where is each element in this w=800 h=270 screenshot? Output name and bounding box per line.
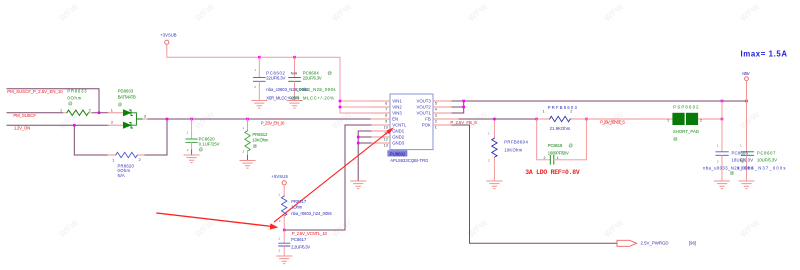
svg-text:3A LDO REF=0.8V: 3A LDO REF=0.8V	[525, 169, 580, 176]
svg-text:21.9KOhm: 21.9KOhm	[550, 126, 571, 131]
svg-text:2: 2	[700, 118, 702, 122]
svg-text:VOUT3: VOUT3	[416, 99, 431, 104]
svg-text:4: 4	[435, 107, 437, 111]
svg-text:1: 1	[278, 192, 280, 196]
resistor PR8612 labels	[242, 126, 269, 153]
svg-text:2: 2	[187, 148, 189, 152]
resistor PR8617 labels	[278, 192, 331, 223]
svg-text:2: 2	[243, 149, 245, 153]
svg-text:1: 1	[187, 131, 189, 135]
power +2.5V	[742, 71, 750, 101]
svg-text:1.2V_ON: 1.2V_ON	[14, 126, 30, 131]
ground PC8620	[184, 155, 199, 163]
wire 1.2V_ON	[7, 124, 108, 126]
svg-text:3: 3	[435, 113, 437, 117]
PU8602 pin numbers	[384, 101, 437, 147]
resistor PR8633 labels	[60, 88, 91, 112]
svg-text:PU8602: PU8602	[390, 151, 406, 156]
svg-text:10KOhm: 10KOhm	[504, 148, 522, 153]
resistor PRFB8603 labels	[543, 105, 578, 131]
svg-text:GND3: GND3	[392, 141, 405, 146]
capacitor PC8617 labels	[278, 237, 310, 253]
svg-text:VIN1: VIN1	[392, 99, 402, 104]
svg-text:@: @	[328, 70, 332, 75]
svg-text:@: @	[673, 137, 677, 142]
svg-text:1: 1	[112, 158, 114, 162]
svg-text:10: 10	[384, 125, 388, 129]
wire PR8633 to diode	[92, 112, 108, 114]
svg-text:PC8617: PC8617	[291, 237, 307, 242]
capacitor PC8606 PC8607 labels	[703, 144, 786, 176]
svg-text:+5VSUS: +5VSUS	[271, 174, 288, 179]
wire VCNTL	[284, 125, 371, 230]
watermark	[57, 1, 762, 239]
svg-text:2: 2	[139, 158, 141, 162]
capacitor PC8617	[279, 230, 290, 256]
capacitor PC8607	[741, 101, 753, 181]
svg-text:10UF/6.3V: 10UF/6.3V	[757, 158, 777, 163]
svg-text:2: 2	[544, 156, 546, 160]
resistor PRFB8603	[537, 116, 587, 121]
wire VIN3	[340, 112, 384, 114]
resistor PR8620 labels	[112, 158, 141, 178]
svg-text:1: 1	[60, 109, 62, 113]
PU8602 refdes highlight	[388, 151, 407, 157]
svg-text:PR8617: PR8617	[291, 199, 307, 204]
wire sense net	[586, 118, 669, 120]
junction dots VOUT tie	[462, 100, 465, 109]
svg-text:8: 8	[385, 113, 387, 117]
svg-text:PC8606: PC8606	[732, 151, 749, 156]
ground PC8617	[277, 256, 292, 264]
capacitor PC8602 labels	[254, 68, 285, 89]
svg-text:2: 2	[717, 160, 719, 164]
svg-text:@: @	[118, 102, 122, 107]
svg-text:2: 2	[111, 121, 113, 125]
svg-text:VIN3: VIN3	[392, 111, 402, 116]
svg-text:@: @	[199, 147, 203, 152]
annotation red arrow to VCNTL junction	[157, 213, 278, 230]
wire PM_SUSC#	[7, 112, 63, 114]
svg-text:PR8633: PR8633	[67, 88, 87, 93]
wire GND bus	[358, 131, 371, 181]
junction dots 3VSUB rail	[258, 56, 341, 108]
svg-text:EN: EN	[392, 117, 398, 122]
capacitor PC8604 labels	[266, 70, 335, 100]
wire port PM_SUSC#_P_2.5V_EN_10	[7, 89, 99, 113]
svg-text:PM_SUSC#: PM_SUSC#	[13, 113, 36, 118]
svg-text:2.5V_PWRGD: 2.5V_PWRGD	[641, 241, 669, 246]
svg-text:+3VSUB: +3VSUB	[160, 32, 177, 37]
wire VOUT rail	[452, 100, 747, 102]
ground PC8606	[715, 181, 730, 189]
svg-text:PD8603: PD8603	[118, 88, 134, 93]
resistor PR8620	[108, 152, 144, 157]
svg-text:SHORT_PAD: SHORT_PAD	[673, 129, 699, 134]
svg-text:PM_SUSC#_P_2.5V_EN_10: PM_SUSC#_P_2.5V_EN_10	[7, 89, 63, 94]
svg-text:12: 12	[384, 137, 388, 141]
capacitor PC8604	[289, 57, 301, 100]
svg-text:1: 1	[488, 132, 490, 136]
svg-text:0Ohm: 0Ohm	[67, 95, 81, 100]
svg-text:GND2: GND2	[392, 135, 405, 140]
svg-text:P_2.5V_VCNTL_10: P_2.5V_VCNTL_10	[292, 231, 328, 236]
resistor PRFB8604	[492, 119, 497, 181]
wire FB net	[459, 118, 537, 120]
svg-text:@: @	[68, 101, 72, 106]
svg-text:GND1: GND1	[392, 129, 405, 134]
svg-text:P_2.5V_EN_10: P_2.5V_EN_10	[261, 121, 285, 126]
capacitor PC8620 labels	[187, 131, 220, 153]
resistor R PR8633	[63, 110, 92, 115]
svg-text:VOUT2: VOUT2	[416, 105, 431, 110]
svg-text:1: 1	[667, 118, 669, 122]
junction dots output	[721, 100, 748, 121]
resistor PR8617	[282, 185, 287, 230]
svg-text:[96]: [96]	[689, 241, 696, 246]
capacitor PC8602	[253, 57, 265, 100]
svg-text:VIN2: VIN2	[392, 105, 402, 110]
svg-text:P_2.5V_SENSE_S: P_2.5V_SENSE_S	[600, 119, 625, 124]
ground IC GND	[351, 181, 366, 189]
PU8602 pin names	[392, 99, 431, 146]
svg-text:2.2UF/6.3V: 2.2UF/6.3V	[291, 244, 310, 249]
svg-text:P_2.5V_FB_S: P_2.5V_FB_S	[450, 120, 477, 125]
svg-text:2: 2	[279, 219, 281, 223]
svg-text:PR8612: PR8612	[252, 132, 268, 137]
svg-text:6: 6	[385, 101, 387, 105]
off-page connector 2.5V_PWRGD	[617, 240, 637, 246]
diode PD8603 labels	[111, 88, 146, 124]
svg-text:@: @	[569, 143, 573, 148]
wire POK to off-page	[452, 125, 617, 243]
junction dots GND bus	[357, 136, 360, 145]
resistor PR8612	[245, 119, 250, 161]
svg-text:POK: POK	[422, 123, 431, 128]
svg-text:APL5933CQBI-TRG: APL5933CQBI-TRG	[390, 158, 428, 163]
wire main EN net	[148, 118, 384, 120]
svg-text:VCNTL: VCNTL	[392, 123, 407, 128]
svg-text:13: 13	[384, 143, 388, 147]
svg-text:2: 2	[435, 119, 437, 123]
svg-text:2: 2	[89, 109, 91, 113]
svg-text:1: 1	[254, 68, 256, 72]
svg-text:@: @	[253, 144, 257, 149]
power +3VSUB	[160, 32, 177, 50]
svg-text:1: 1	[278, 237, 280, 241]
svg-text:x0603_N37_000s: x0603_N37_000s	[738, 166, 786, 171]
svg-text:FB: FB	[425, 117, 431, 122]
svg-text:nba_r0603_h24_008s: nba_r0603_h24_008s	[291, 211, 332, 216]
ground PC8607	[739, 181, 754, 189]
short pad PSP8602	[669, 113, 722, 125]
svg-text:X5R_MLCC+/-20%: X5R_MLCC+/-20%	[290, 95, 334, 100]
svg-text:@: @	[730, 170, 734, 175]
svg-text:PSP8602: PSP8602	[673, 104, 699, 109]
svg-text:1: 1	[557, 156, 559, 160]
svg-text:7: 7	[385, 107, 387, 111]
svg-text:BAT54ATB: BAT54ATB	[118, 95, 136, 100]
svg-text:+2.5V: +2.5V	[742, 71, 750, 76]
ground PC8604	[287, 101, 302, 109]
svg-text:9: 9	[385, 119, 387, 123]
ground PR8612	[240, 161, 255, 169]
svg-text:PC8607: PC8607	[757, 151, 776, 156]
annotation red arrow to VCNTL pin	[274, 127, 394, 221]
svg-text:2: 2	[570, 109, 572, 113]
resistor PRFB8604 labels	[488, 132, 528, 163]
wire VOUT2 VOUT1 tie	[452, 101, 464, 113]
svg-text:1: 1	[740, 144, 742, 148]
svg-text:PRFB8604: PRFB8604	[504, 140, 528, 145]
op-amp U PU8602 LDO body	[390, 94, 433, 150]
svg-text:2: 2	[742, 160, 744, 164]
ground PC8602	[252, 101, 267, 109]
svg-text:VOUT1: VOUT1	[416, 111, 431, 116]
junction dots left	[73, 112, 249, 127]
ground PRFB8604	[487, 181, 502, 189]
junction dots FB net	[493, 118, 588, 121]
short pad PSP8602 labels	[667, 104, 702, 141]
capacitor PC8620	[186, 119, 197, 155]
svg-text:1: 1	[111, 108, 113, 112]
capacitor PC8606	[716, 101, 728, 181]
svg-text:2: 2	[279, 249, 281, 253]
svg-text:1: 1	[543, 109, 545, 113]
svg-text:c0603_N28_000s: c0603_N28_000s	[297, 87, 336, 92]
capacitor PC8618 labels	[544, 143, 573, 160]
capacitor PC8618 parallel branch	[537, 119, 587, 164]
svg-text:22UF/6.3V: 22UF/6.3V	[303, 76, 322, 81]
svg-text:10KOhm: 10KOhm	[252, 138, 269, 143]
svg-text:N/A: N/A	[118, 173, 125, 178]
svg-text:2: 2	[488, 159, 490, 163]
svg-text:1: 1	[435, 125, 437, 129]
junction dot VCNTL	[283, 229, 286, 232]
PU8602 left pin stubs	[371, 101, 390, 143]
wire PR8620 bypass loop	[74, 119, 167, 155]
svg-text:5: 5	[435, 101, 437, 105]
svg-text:1600PF/50V: 1600PF/50V	[548, 150, 569, 155]
power +5VSUS	[271, 174, 288, 185]
svg-text:1: 1	[717, 144, 719, 148]
diode PD8603 dual BAT54A	[108, 110, 148, 128]
svg-text:PC8618: PC8618	[548, 143, 563, 148]
svg-text:2: 2	[254, 85, 256, 89]
svg-text:0.1UF/25V: 0.1UF/25V	[199, 142, 220, 147]
wire +3VSUB rail to VIN	[167, 50, 384, 113]
svg-text:22UF/6.3V: 22UF/6.3V	[266, 76, 285, 81]
svg-text:1: 1	[242, 126, 244, 130]
svg-text:N/A: N/A	[291, 70, 298, 75]
PU8602 right pin stubs	[433, 101, 460, 125]
svg-text:Imax= 1.5A: Imax= 1.5A	[741, 50, 788, 59]
svg-text:3: 3	[144, 115, 146, 119]
